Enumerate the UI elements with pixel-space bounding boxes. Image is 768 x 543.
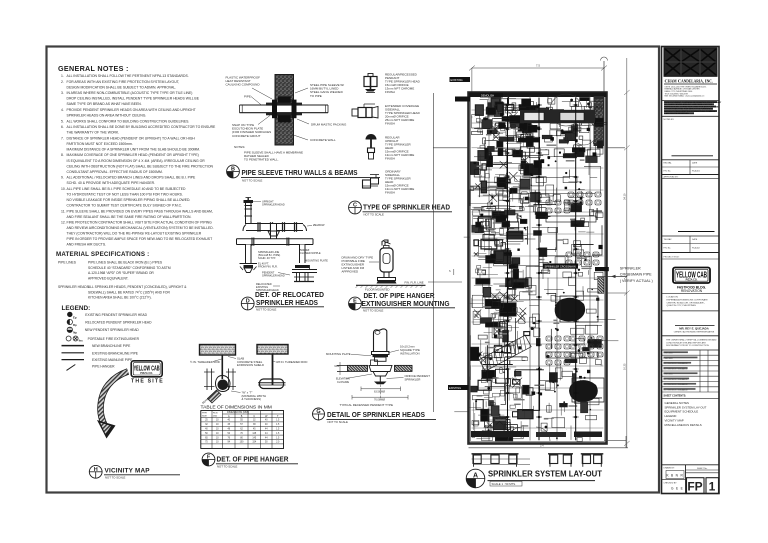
svg-text:PIPE: PIPE bbox=[202, 413, 208, 415]
right concrete beam bbox=[257, 345, 288, 355]
svg-text:NOT TO SCALE: NOT TO SCALE bbox=[328, 420, 348, 424]
svg-text:SIDEWALL) SHALL BE RATED 74°C: SIDEWALL) SHALL BE RATED 74°C (165°F) AN… bbox=[88, 290, 170, 294]
relocated heads: bottom right mounting bracket bbox=[295, 265, 310, 268]
svg-text:OWNER / AUTHORIZED REPRESENTAT: OWNER / AUTHORIZED REPRESENTATIVE bbox=[674, 331, 715, 334]
svg-text:NO. REVISION / ISSUANCE: NO. REVISION / ISSUANCE bbox=[664, 388, 689, 391]
svg-text:SAME TYPE OR BRAND AS WHAT HAV: SAME TYPE OR BRAND AS WHAT HAVE BEEN. bbox=[67, 102, 142, 106]
svg-text:SPRINKLER HEAD: SPRINKLER HEAD bbox=[262, 203, 285, 207]
svg-text:THEY (CONTRACTOR) WILL DO THE: THEY (CONTRACTOR) WILL DO THE RE-PIPING/… bbox=[67, 232, 202, 236]
ceiling hatched blocks bbox=[348, 365, 368, 371]
svg-text:E: E bbox=[353, 299, 357, 305]
plan bottom exterior tables left bbox=[472, 453, 519, 455]
svg-text:ALL INSTALLATION SHALL FOLLOW: ALL INSTALLATION SHALL FOLLOW THE PERTIN… bbox=[67, 74, 189, 78]
svg-text:SPRINKLER HEADS: SPRINKLER HEADS bbox=[256, 298, 318, 307]
svg-text:TO HYDROSTATIC TEST OF NOT LES: TO HYDROSTATIC TEST OF NOT LESS THAN 100… bbox=[67, 192, 183, 196]
svg-text:FAX: 633-6940 E-MAIL: chamcan: FAX: 633-6940 E-MAIL: chamcand@pldtdsl.n… bbox=[665, 95, 705, 98]
svg-text:10.: 10. bbox=[61, 187, 66, 191]
svg-text:RELOCATED PENDENT SPRINKLER HE: RELOCATED PENDENT SPRINKLER HEAD bbox=[85, 320, 152, 324]
svg-text:IN AREAS WHERE NON-COMBUSTIBLE: IN AREAS WHERE NON-COMBUSTIBLE (ACOUSTIC… bbox=[67, 91, 193, 95]
plan central clutter bbox=[571, 221, 584, 227]
coupling flanges bbox=[372, 352, 390, 355]
svg-text:NO. REVISION / ISSUANCE: NO. REVISION / ISSUANCE bbox=[664, 362, 689, 365]
plan door arcs bottom bbox=[508, 427, 522, 441]
svg-text:K B N R: K B N R bbox=[666, 474, 683, 478]
svg-text:NO VISIBLE LEAKAGE FOR INSIDE: NO VISIBLE LEAKAGE FOR INSIDE SPRINKLER … bbox=[67, 198, 191, 202]
dim lines bbox=[361, 388, 401, 390]
svg-text:GENERAL NOTES :: GENERAL NOTES : bbox=[58, 64, 129, 73]
svg-text:7.5: 7.5 bbox=[536, 64, 540, 68]
plan chairs right clusters bbox=[546, 200, 552, 205]
svg-text:NO. REVISION / ISSUANCE: NO. REVISION / ISSUANCE bbox=[664, 378, 689, 381]
svg-text:NOT TO SCALE: NOT TO SCALE bbox=[363, 308, 383, 312]
svg-text:MOUNTING PLATE: MOUNTING PLATE bbox=[326, 352, 351, 356]
plan interior grid lines bbox=[488, 96, 490, 441]
svg-text:3.4: 3.4 bbox=[540, 444, 544, 447]
svg-text:PIZZA CO.: PIZZA CO. bbox=[686, 279, 698, 282]
hatched tail bbox=[208, 390, 222, 403]
revision schedule rows bbox=[662, 354, 720, 356]
plan bottom interior dark band bbox=[471, 431, 529, 437]
floor plan leader lines bbox=[432, 93, 434, 412]
detail bubble E bbox=[349, 297, 362, 310]
svg-text:fex: fex bbox=[79, 339, 83, 343]
plan left band fine texture lines bbox=[472, 187, 486, 189]
legend line existing mainline bbox=[62, 359, 85, 361]
svg-text:P.R. No.: P.R. No. bbox=[664, 171, 672, 173]
svg-text:CLOSED NIPPLE: CLOSED NIPPLE bbox=[300, 251, 321, 255]
svg-text:DRAWN BY:: DRAWN BY: bbox=[664, 466, 676, 469]
svg-text:3.: 3. bbox=[61, 91, 64, 95]
plan left band inner detail rects bbox=[483, 369, 486, 372]
svg-text:PIPE IN ORDER TO PROVIDE AMPLE: PIPE IN ORDER TO PROVIDE AMPLE SPACE FOR… bbox=[67, 237, 213, 241]
svg-text:TO PENETRATED WALL.: TO PENETRATED WALL. bbox=[244, 158, 279, 162]
svg-text:NEW PENDENT SPRINKLER HEAD: NEW PENDENT SPRINKLER HEAD bbox=[85, 328, 140, 332]
svg-text:A-120-1968 “APD” OR “SUPER” BR: A-120-1968 “APD” OR “SUPER” BRAND OR bbox=[88, 271, 154, 275]
plan vertical pipe mains bbox=[507, 98, 509, 440]
plan dark counter strip bbox=[520, 110, 595, 123]
detail bubble A bbox=[466, 469, 485, 488]
svg-text:& THICKNESS): & THICKNESS) bbox=[242, 397, 262, 401]
plan random short lines bbox=[491, 231, 499, 233]
svg-text:76.0MMØ: 76.0MMØ bbox=[374, 399, 385, 402]
svg-text:8.: 8. bbox=[61, 153, 64, 157]
svg-text:AND FRESH AIR DUCTS.: AND FRESH AIR DUCTS. bbox=[67, 243, 107, 247]
svg-text:G E E: G E E bbox=[671, 487, 684, 491]
svg-text:SPRINKLER HEAD: SPRINKLER HEAD bbox=[262, 274, 285, 278]
svg-text:6.: 6. bbox=[61, 125, 64, 129]
legend symbol existing pendent bbox=[67, 312, 72, 317]
legend line existing branchline bbox=[62, 352, 85, 354]
svg-text:Np: Np bbox=[73, 331, 77, 335]
svg-text:7.: 7. bbox=[61, 136, 64, 140]
plan sprinkler dots bbox=[552, 381, 554, 383]
svg-text:FINISH: FINISH bbox=[385, 122, 395, 126]
svg-text:PORTABLE FIRE EXTINGUISHER: PORTABLE FIRE EXTINGUISHER bbox=[88, 337, 140, 341]
svg-text:EXTINGUISHER MOUNTING: EXTINGUISHER MOUNTING bbox=[362, 299, 450, 308]
svg-text:NO. REVISION / ISSUANCE: NO. REVISION / ISSUANCE bbox=[664, 367, 689, 370]
svg-text:DEMOLISH: DEMOLISH bbox=[481, 95, 494, 98]
svg-text:NEW BRANCHLINE PIPE: NEW BRANCHLINE PIPE bbox=[92, 344, 131, 348]
relocated heads: top sprinkler head bbox=[244, 200, 254, 203]
svg-text:63.5MMØ: 63.5MMØ bbox=[374, 390, 385, 393]
svg-text:CHECKED: CHECKED bbox=[664, 374, 674, 376]
relocated heads: right drop pipe bbox=[300, 245, 306, 264]
plan orthogonal pipe runs bbox=[499, 261, 512, 286]
clevis hanger left bbox=[206, 369, 208, 391]
svg-text:DATE: DATE bbox=[692, 161, 698, 164]
svg-text:NOTES:: NOTES: bbox=[234, 145, 245, 149]
svg-text:ALL WORKS SHALL CONFORM TO BUI: ALL WORKS SHALL CONFORM TO BUILDING CONS… bbox=[67, 119, 190, 123]
svg-text:QUEZON CITY, PHILIPPINES: QUEZON CITY, PHILIPPINES bbox=[667, 305, 697, 307]
svg-text:PROVIDE PENDENT SPRINKLER HEAD: PROVIDE PENDENT SPRINKLER HEADS ON AREA … bbox=[67, 108, 196, 112]
svg-text:DISTANCE OF SPRINKLER HEAD (PE: DISTANCE OF SPRINKLER HEAD (PENDENT OR U… bbox=[67, 136, 196, 140]
svg-text:4.: 4. bbox=[61, 108, 64, 112]
svg-text:NOT TO SCALE: NOT TO SCALE bbox=[364, 213, 384, 217]
svg-text:SHEET No.: SHEET No. bbox=[697, 468, 708, 470]
sprinkler detail drop pipe bbox=[374, 329, 387, 352]
svg-text:A: A bbox=[473, 473, 478, 480]
svg-text:Ep: Ep bbox=[73, 316, 77, 320]
extinguisher neck bbox=[384, 246, 390, 249]
svg-text:LOCATION:: LOCATION: bbox=[667, 296, 679, 299]
left threaded rod bbox=[221, 355, 223, 379]
legend line new branchline bbox=[62, 345, 85, 347]
svg-text:EXPANSION SHIELD: EXPANSION SHIELD bbox=[237, 363, 264, 367]
svg-text:34.10: 34.10 bbox=[623, 193, 627, 200]
plan left band X hatches bbox=[520, 155, 530, 165]
pipe sleeve black sleeve bbox=[278, 97, 291, 123]
svg-text:TO PIPE: TO PIPE bbox=[310, 94, 322, 98]
svg-text:SPRINKLER: SPRINKLER bbox=[620, 267, 641, 271]
svg-text:ALL PIPE LINE SHALL BE B.I. PI: ALL PIPE LINE SHALL BE B.I. PIPE SCHEDUL… bbox=[67, 187, 186, 191]
plan junction blocks bbox=[519, 283, 521, 285]
svg-text:CENTER, EDSA COR. ORTIGAS AVE.: CENTER, EDSA COR. ORTIGAS AVE., bbox=[667, 301, 706, 304]
svg-text:AND FIRE SEALANT SHALL BE THE: AND FIRE SEALANT SHALL BE THE SAME FIRE … bbox=[67, 215, 192, 219]
center line bbox=[379, 385, 381, 400]
plan upper-left extra density bbox=[504, 252, 512, 255]
extinguisher body bbox=[380, 248, 393, 272]
sheet border frame bbox=[47, 47, 660, 493]
svg-text:KITCHEN AREA SHALL BE 100°C (2: KITCHEN AREA SHALL BE 100°C (212°F). bbox=[88, 296, 152, 300]
plan top dark band bbox=[469, 93, 607, 98]
legend symbol fire extinguisher bbox=[66, 336, 71, 341]
svg-text:FINISH: FINISH bbox=[385, 157, 395, 161]
svg-text:PIPE SLEEVE SHALL BE PROVIDED: PIPE SLEEVE SHALL BE PROVIDED ON EVERY P… bbox=[67, 209, 213, 213]
svg-text:CHAM CANDELARIA, INC.: CHAM CANDELARIA, INC. bbox=[665, 79, 713, 84]
svg-text:AND REVIEW AIRCONDITIONING MEC: AND REVIEW AIRCONDITIONING MECHANICAL (V… bbox=[67, 226, 214, 230]
svg-text:FOR AREAS WITH AN EXISTING FIR: FOR AREAS WITH AN EXISTING FIRE PROTECTI… bbox=[67, 80, 180, 84]
extinguisher stand bbox=[383, 272, 385, 278]
right threaded rod bbox=[272, 354, 274, 385]
detail bubble B bbox=[227, 165, 240, 178]
svg-text:ESPERANZA ROBINSONS CORPORATE: ESPERANZA ROBINSONS CORPORATE bbox=[667, 298, 709, 301]
plan top dimension line bbox=[472, 67, 605, 69]
svg-text:FIRE PROTECTION CONTRACTOR SHA: FIRE PROTECTION CONTRACTOR SHALL VISIT S… bbox=[67, 221, 213, 225]
svg-text:TYPICAL RECESSED PENDENT TYPE: TYPICAL RECESSED PENDENT TYPE bbox=[340, 403, 393, 407]
svg-text:CAULKING COMPOUND: CAULKING COMPOUND bbox=[226, 83, 261, 87]
svg-text:INSTALLATION: INSTALLATION bbox=[400, 351, 419, 355]
svg-text:SCHEDULE 40 “STANDARD” CONFORM: SCHEDULE 40 “STANDARD” CONFORMING TO AST… bbox=[88, 266, 171, 270]
sprinkler head icon upright bbox=[366, 134, 377, 139]
svg-text:FP: FP bbox=[687, 480, 702, 494]
svg-text:FINISH: FINISH bbox=[385, 191, 395, 195]
svg-text:C: C bbox=[253, 415, 255, 418]
svg-text:THE WARRANTY OF THE WORK.: THE WARRANTY OF THE WORK. bbox=[67, 131, 120, 135]
svg-text:PLA-002: PLA-002 bbox=[692, 247, 701, 250]
svg-text:Rp: Rp bbox=[73, 323, 77, 327]
svg-text:FIN. FLR. LINE: FIN. FLR. LINE bbox=[405, 281, 424, 285]
vicinity map detail bubble bbox=[89, 465, 102, 478]
svg-text:SPRINKLER CROSSMAIN: SPRINKLER CROSSMAIN bbox=[545, 265, 576, 269]
svg-text:ALL INSTALLATION SHALL BE DONE: ALL INSTALLATION SHALL BE DONE BY BUILDI… bbox=[67, 125, 217, 129]
sprinkler head icon pendant bbox=[364, 77, 377, 87]
project title section bbox=[662, 258, 720, 260]
plan top-right dark zone bbox=[594, 96, 605, 146]
svg-text:DETAIL OF SPRINKLER HEADS: DETAIL OF SPRINKLER HEADS bbox=[327, 410, 425, 419]
svg-text:SPRINKLER: SPRINKLER bbox=[405, 377, 421, 381]
svg-text:SPRINKLER SYSTEM LAY-OUT: SPRINKLER SYSTEM LAY-OUT bbox=[488, 470, 602, 479]
legend symbol relocated pendent bbox=[67, 319, 72, 324]
pipe horizontal bbox=[240, 105, 329, 113]
copyright paragraph bbox=[664, 101, 717, 103]
svg-text:NO. REVISION / ISSUANCE: NO. REVISION / ISSUANCE bbox=[664, 383, 689, 386]
svg-text:MISCELLANEOUS DETAILS: MISCELLANEOUS DETAILS bbox=[665, 423, 702, 427]
svg-text:PLA-001: PLA-001 bbox=[692, 170, 701, 173]
title block logo bbox=[664, 48, 717, 77]
bottom block bbox=[662, 464, 720, 466]
svg-text:NOT TO SCALE: NOT TO SCALE bbox=[105, 476, 125, 480]
svg-text:MATERIAL SPECIFICATIONS :: MATERIAL SPECIFICATIONS : bbox=[56, 251, 149, 258]
svg-text:NOT TO SCALE: NOT TO SCALE bbox=[217, 465, 237, 469]
svg-text:9.: 9. bbox=[61, 176, 64, 180]
dimension table grid bbox=[201, 411, 284, 449]
svg-text:MAXIMUM DISTANCE OF A SPRINKLE: MAXIMUM DISTANCE OF A SPRINKLER UNIT FRO… bbox=[67, 147, 201, 151]
FP sheet number bbox=[687, 478, 705, 494]
svg-text:SPRINKLER HEADS: SPRINKLER HEADS bbox=[58, 285, 90, 289]
pipe section with clevis bbox=[216, 376, 231, 392]
svg-text:C: C bbox=[353, 203, 357, 209]
plan outer wall bbox=[469, 93, 607, 444]
sprinkler head icon ordinary sidewall bbox=[363, 180, 371, 188]
legend symbol new pendent bbox=[67, 327, 72, 332]
svg-text:2.: 2. bbox=[61, 80, 64, 84]
svg-text:FINISH: FINISH bbox=[385, 90, 395, 94]
svg-text:CHECKED: CHECKED bbox=[664, 358, 674, 360]
relocated heads: bottom left pendent head bbox=[240, 263, 258, 265]
svg-text:PIZZA CO.: PIZZA CO. bbox=[140, 371, 153, 375]
relocated heads: upper horizontal branch pipe bbox=[246, 224, 303, 231]
svg-text:CONSULTANT APPROVAL. EFFECTIVE: CONSULTANT APPROVAL. EFFECTIVE RADIUS OF… bbox=[67, 170, 163, 174]
svg-text:11.: 11. bbox=[61, 209, 66, 213]
left concrete beam bbox=[200, 345, 236, 356]
signatory box 2 bbox=[678, 231, 715, 233]
svg-text:P.R. No.: P.R. No. bbox=[664, 248, 672, 250]
escutcheon plates bbox=[266, 103, 302, 106]
svg-text:MAXIMUM COVERAGE OF ONE SPRINK: MAXIMUM COVERAGE OF ONE SPRINKLER HEAD (… bbox=[67, 153, 199, 157]
svg-text:CONCRETE WALL: CONCRETE WALL bbox=[310, 138, 336, 142]
svg-text:DESIGN MODIFICATION SHALL BE S: DESIGN MODIFICATION SHALL BE SUBJECT TO … bbox=[67, 85, 177, 89]
project logo badge bbox=[673, 268, 710, 284]
svg-text:PIPE HANGER: PIPE HANGER bbox=[92, 364, 115, 368]
svg-text:CEILING WITH OBSTRUCTION (NOT: CEILING WITH OBSTRUCTION (NOT FLAT) SHAL… bbox=[67, 164, 214, 168]
svg-text:VICINITY MAP: VICINITY MAP bbox=[105, 468, 151, 475]
svg-text:G: G bbox=[316, 409, 320, 415]
svg-text:10.25: 10.25 bbox=[623, 363, 627, 370]
svg-text:MOUNTING PLATE: MOUNTING PLATE bbox=[305, 259, 328, 263]
svg-text:CONTRACTOR TO SUBMIT TEST CERT: CONTRACTOR TO SUBMIT TEST CERTIFICATE DU… bbox=[67, 203, 183, 207]
svg-text:EXISTING PENDENT SPRINKLER HEA: EXISTING PENDENT SPRINKLER HEAD bbox=[85, 313, 147, 317]
svg-text:DISCREPANCY PRIOR TO CONSTRUCT: DISCREPANCY PRIOR TO CONSTRUCTION. bbox=[666, 344, 710, 347]
svg-text:LEGEND:: LEGEND: bbox=[62, 305, 91, 312]
svg-text:PIPE LINES SHALL BE BLACK IRON: PIPE LINES SHALL BE BLACK IRON (B.I.) PI… bbox=[88, 261, 163, 265]
svg-text:THE SITE: THE SITE bbox=[131, 379, 164, 385]
svg-text:1.: 1. bbox=[61, 74, 64, 78]
svg-text:NOT TO SCALE: NOT TO SCALE bbox=[256, 307, 276, 311]
svg-text:PIPE LINES: PIPE LINES bbox=[58, 261, 77, 265]
svg-text:SCALE 1 : 50 MTS.: SCALE 1 : 50 MTS. bbox=[492, 482, 517, 486]
svg-text:NOT TO SCALE: NOT TO SCALE bbox=[242, 179, 262, 183]
svg-text:DROP CEILING INSTALLED, INSTAL: DROP CEILING INSTALLED, INSTALL PENDENT … bbox=[67, 97, 200, 101]
svg-text:ROD: ROD bbox=[213, 413, 218, 415]
svg-text:( VERIFY ACTUAL ): ( VERIFY ACTUAL ) bbox=[620, 279, 653, 283]
plan kitchen left band equipment bbox=[506, 105, 514, 111]
recessed pendent sprinkler bbox=[369, 365, 392, 371]
svg-text:EXISTING MAINLINE PIPE: EXISTING MAINLINE PIPE bbox=[92, 358, 133, 362]
svg-text:REL/VAL: REL/VAL bbox=[664, 161, 673, 164]
svg-text:PROJECT TITLE:: PROJECT TITLE: bbox=[664, 257, 680, 259]
svg-text:APPROVED EQUIVALENT.: APPROVED EQUIVALENT. bbox=[88, 276, 129, 280]
the site badge box bbox=[131, 361, 162, 377]
svg-text:CONCRETE GROUT: CONCRETE GROUT bbox=[232, 134, 261, 138]
svg-text:TYPE OF SPRINKLER HEAD: TYPE OF SPRINKLER HEAD bbox=[363, 203, 450, 212]
plan black callout bars bbox=[450, 77, 471, 82]
svg-text:SCHD. 40 TYP.: SCHD. 40 TYP. bbox=[258, 256, 276, 260]
svg-text:PIPE SLEEVE THRU WALLS & BEAMS: PIPE SLEEVE THRU WALLS & BEAMS bbox=[242, 168, 358, 177]
relocated heads: left drop pipe bbox=[246, 245, 252, 264]
pipe sleeve detail wall column bbox=[275, 75, 294, 146]
svg-text:DET. OF PIPE HANGER: DET. OF PIPE HANGER bbox=[217, 455, 289, 464]
svg-text:EXISTING: EXISTING bbox=[451, 78, 463, 82]
trapeze pipe section bbox=[260, 379, 284, 389]
svg-text:B: B bbox=[231, 167, 235, 173]
plan dark blobs bbox=[555, 298, 585, 322]
svg-text:3/8 IN. THREADED ROD: 3/8 IN. THREADED ROD bbox=[276, 360, 307, 364]
relocated heads: lower horizontal pipe bbox=[237, 239, 314, 245]
right side vertical dimension line bbox=[626, 58, 628, 448]
plan bottom dimension line bbox=[469, 447, 629, 449]
floor line bbox=[356, 284, 426, 286]
svg-text:TEL/FAX: TEL/FAX bbox=[664, 238, 673, 241]
svg-text:DRUM MASTIC PACKING: DRUM MASTIC PACKING bbox=[311, 123, 347, 127]
svg-text:APPROVED BY:: APPROVED BY: bbox=[664, 176, 679, 179]
svg-text:APPROVED: APPROVED bbox=[342, 270, 360, 274]
svg-text:ALL SPRINKLER HEADS, PENDENT (: ALL SPRINKLER HEADS, PENDENT (CONCEALED)… bbox=[88, 285, 187, 289]
svg-text:EXISTING: EXISTING bbox=[449, 386, 461, 390]
svg-text:THE OWNER SHALL VERIFY ALL DIM: THE OWNER SHALL VERIFY ALL DIMENSIONS AN… bbox=[666, 339, 717, 342]
svg-text:ØELBOW: ØELBOW bbox=[313, 223, 325, 227]
detail bubble F bbox=[202, 453, 215, 466]
svg-text:LAW RIGHTS RESERVED.: LAW RIGHTS RESERVED. bbox=[665, 112, 690, 115]
plan top zone dense clutter bbox=[559, 140, 568, 144]
svg-text:MR. REY E. QUEJADA: MR. REY E. QUEJADA bbox=[679, 327, 708, 331]
svg-text:FROM FIN. FLR.: FROM FIN. FLR. bbox=[258, 265, 278, 269]
svg-text:SPRINKLER HEADS ON AREA WITHOU: SPRINKLER HEADS ON AREA WITHOUT CEILING. bbox=[67, 113, 147, 117]
svg-text:CONDITIONS AT SITE AND REPORT: CONDITIONS AT SITE AND REPORT ANY bbox=[666, 341, 707, 344]
relocated heads: tee down to second pipe bbox=[271, 224, 277, 239]
svg-text:RENOVATION: RENOVATION bbox=[681, 289, 703, 293]
svg-text:TABLE OF DIMENSIONS IN MM: TABLE OF DIMENSIONS IN MM bbox=[201, 405, 272, 411]
plan tiny annotation smudges bbox=[569, 405, 578, 406]
sprinkler head icon extended sidewall bbox=[352, 109, 358, 116]
plan diagonal hatch ramp bbox=[477, 335, 531, 372]
svg-text:IS EQUIVALENT TO A ROOM DIMENS: IS EQUIVALENT TO A ROOM DIMENSION OF 4 X… bbox=[67, 159, 206, 163]
owner signature bbox=[675, 325, 715, 327]
svg-text:1: 1 bbox=[709, 480, 716, 494]
curved site arrow bbox=[100, 372, 128, 426]
detail bubble G bbox=[313, 408, 325, 420]
svg-text:CHECKED BY:: CHECKED BY: bbox=[664, 482, 678, 484]
svg-text:DIMENSIONS (MM.): DIMENSIONS (MM.) bbox=[227, 411, 249, 414]
wall column hatch right bbox=[598, 278, 604, 294]
relocated heads: top riser pipe bbox=[246, 203, 252, 224]
plan big circle tables top bbox=[550, 94, 582, 126]
svg-text:DIA: DIA bbox=[213, 414, 217, 417]
svg-text:ALL ADDITIONAL / RELOCATED BRA: ALL ADDITIONAL / RELOCATED BRANCH LINES … bbox=[67, 176, 197, 180]
svg-text:5.: 5. bbox=[61, 119, 64, 123]
extinguisher handle bbox=[382, 240, 388, 246]
title block outer frame bbox=[662, 47, 720, 494]
detail bubble C bbox=[349, 201, 362, 214]
svg-text:CHECKED: CHECKED bbox=[664, 353, 674, 355]
svg-text:D: D bbox=[246, 299, 250, 305]
svg-text:12.: 12. bbox=[61, 221, 66, 225]
svg-text:H: H bbox=[94, 467, 98, 473]
svg-text:MIN.: MIN. bbox=[335, 365, 341, 368]
svg-text:SCHD. 40 & PROVIDE WITH ADEQUA: SCHD. 40 & PROVIDE WITH ADEQUATE PIPE HA… bbox=[67, 181, 156, 185]
svg-text:SHEET CONTENTS:: SHEET CONTENTS: bbox=[664, 395, 687, 398]
legend pipe hanger slash bbox=[67, 365, 76, 371]
svg-text:SIZE: SIZE bbox=[202, 415, 207, 417]
svg-text:EXISTING BRANCHLINE PIPE: EXISTING BRANCHLINE PIPE bbox=[92, 351, 139, 355]
detail bubble D bbox=[241, 297, 254, 310]
svg-text:CLOSURE: CLOSURE bbox=[337, 381, 349, 384]
svg-text:PIPE: PIPE bbox=[244, 95, 251, 99]
svg-text:PARTITION MUST NOT EXCEED 1500: PARTITION MUST NOT EXCEED 1500mm. bbox=[67, 142, 133, 146]
svg-text:NOTED BY:: NOTED BY: bbox=[664, 119, 675, 121]
svg-text:DATE: DATE bbox=[692, 238, 698, 241]
